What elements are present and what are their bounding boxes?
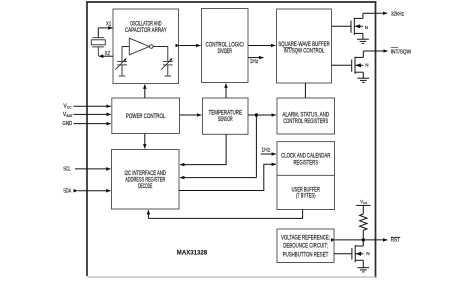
wire: 1Hz output of divider — [248, 57, 263, 59]
svg-text:CC: CC — [67, 105, 72, 109]
svg-text:RST: RST — [391, 238, 401, 244]
wire: SDA bidirectional with I2C interface — [78, 190, 111, 192]
svg-text:CONTROL REGISTERS: CONTROL REGISTERS — [283, 119, 328, 125]
svg-text:CONTROL LOGIC/: CONTROL LOGIC/ — [206, 42, 245, 48]
wire: X1 into oscillator — [98, 27, 112, 29]
svg-text:DEBOUNCE CIRCUIT;: DEBOUNCE CIRCUIT; — [283, 244, 328, 250]
wire: temperature sensor up to control logic — [225, 84, 227, 98]
wire: resistor to RST node — [362, 230, 364, 240]
node: RST net junction — [362, 238, 365, 241]
pin label VBAT — [63, 112, 73, 118]
node: temp sensor output junction — [255, 113, 258, 116]
wire: power control down to I2C interface — [144, 134, 146, 149]
block: alarm, status, and control registers — [277, 98, 335, 134]
block: square-wave buffer INT/SQW control — [277, 9, 332, 83]
svg-text:CAPACITOR ARRAY: CAPACITOR ARRAY — [125, 28, 167, 34]
wire: 1Hz into clock and calendar registers — [261, 153, 276, 155]
wire: square-wave buffer down to alarm registers — [304, 83, 306, 98]
svg-text:N: N — [365, 25, 368, 30]
svg-text:MAX31328: MAX31328 — [177, 250, 208, 257]
ground (Q3 source) — [357, 268, 369, 272]
wire: temp sensor bottom down — [181, 134, 226, 164]
block: I2C interface and address register decode — [112, 150, 180, 210]
svg-text:INT/SQW CONTROL: INT/SQW CONTROL — [284, 48, 325, 54]
svg-text:VOLTAGE REFERENCE;: VOLTAGE REFERENCE; — [281, 235, 330, 241]
svg-text:ADDRESS REGISTER: ADDRESS REGISTER — [125, 178, 166, 184]
variable capacitor C1 (left) — [115, 58, 127, 76]
svg-text:USER BUFFER: USER BUFFER — [292, 187, 321, 193]
wire: junction to I2C interface (middle) — [180, 177, 256, 179]
wire: left cap to inverter input — [122, 47, 129, 62]
svg-text:DECODE: DECODE — [138, 184, 152, 190]
crystal Y1 — [91, 38, 105, 57]
svg-text:(7 BYTES): (7 BYTES) — [296, 194, 316, 200]
svg-text:1Hz: 1Hz — [261, 148, 270, 154]
svg-text:CLOCK AND CALENDAR: CLOCK AND CALENDAR — [281, 154, 331, 160]
block: oscillator and capacitor array — [113, 9, 179, 84]
wire: oscillator to control logic (bidirectional) — [180, 45, 201, 47]
svg-text:PUSHBUTTON RESET: PUSHBUTTON RESET — [283, 252, 329, 258]
block: clock and calendar registers / user buffer — [277, 142, 335, 210]
svg-text:POWER CONTROL: POWER CONTROL — [126, 114, 166, 120]
svg-text:ALARM, STATUS, AND: ALARM, STATUS, AND — [282, 113, 329, 119]
wire: buffer to INT/SQW output MOSFET gate — [332, 64, 352, 66]
wire: VCC into power control — [74, 105, 111, 107]
svg-text:X1: X1 — [106, 21, 111, 27]
svg-text:N: N — [365, 63, 368, 68]
svg-text:CC: CC — [363, 201, 367, 205]
svg-text:BAT: BAT — [66, 114, 72, 118]
resistor R1 (RST pullup) — [360, 214, 367, 230]
block: power control — [112, 98, 180, 134]
svg-text:SCL: SCL — [63, 167, 71, 173]
pin label VCC — [63, 103, 72, 109]
transistor Q2 (INT/SQW open-drain, N-channel) — [352, 51, 364, 78]
svg-text:TEMPERATURE: TEMPERATURE — [209, 111, 243, 117]
wire: VBAT into power control — [74, 113, 111, 115]
wire: control logic to square-wave buffer — [248, 45, 275, 47]
wire: GND into power control — [74, 123, 111, 125]
svg-text:GND: GND — [62, 121, 72, 127]
block: control logic / divider — [202, 9, 249, 83]
wire: X2 out of oscillator (arrow toward crystal) — [99, 55, 113, 57]
wire: I2C interface to clock registers — [179, 164, 270, 190]
svg-text:INT/SQW: INT/SQW — [391, 50, 412, 56]
wire: into I2C interface (upper arrow) — [180, 164, 186, 166]
chip boundary frame (right) — [375, 1, 377, 277]
wire: inverter output to right cap — [153, 47, 168, 62]
wire: junction down — [255, 115, 257, 178]
ground (Q1 source) — [357, 39, 369, 43]
svg-text:OSCILLATOR AND: OSCILLATOR AND — [130, 21, 162, 27]
power VCC (RST pullup supply) — [360, 199, 367, 205]
wire: user buffer bottom loop back to I2C interface — [148, 210, 302, 219]
inverter (oscillator gate) — [129, 38, 153, 55]
svg-text:DIVIDER: DIVIDER — [218, 49, 233, 55]
wire: VCC bar down to resistor — [362, 205, 364, 214]
wire: debounce block to Q3 gate — [334, 253, 352, 255]
svg-text:32kHz: 32kHz — [391, 12, 404, 18]
wire: temperature sensor to alarm registers — [248, 114, 276, 116]
wire: Q1 drain to 32kHz pin — [363, 12, 387, 14]
chip boundary frame (left) — [86, 1, 88, 276]
svg-text:SENSOR: SENSOR — [218, 117, 233, 123]
transistor Q3 (reset pulldown, N-channel) — [352, 240, 363, 268]
wire: X1 lead down to crystal — [97, 28, 99, 38]
wire: RST node to debounce block (arrow left) and RST pin (arrow right) — [335, 239, 387, 241]
wire: power control to temperature sensor — [180, 114, 202, 116]
chip boundary frame (top) — [86, 1, 376, 3]
svg-text:N: N — [366, 251, 369, 256]
wire: Q2 drain to INT/SQW pin — [363, 50, 387, 52]
wire: power control up to oscillator — [144, 85, 146, 98]
svg-text:SQUARE-WAVE BUFFER: SQUARE-WAVE BUFFER — [278, 42, 330, 48]
wire: buffer to 32kHz output MOSFET gate — [332, 25, 352, 27]
transistor Q1 (32kHz open-drain, N-channel) — [351, 13, 363, 39]
svg-text:SDA: SDA — [63, 189, 72, 195]
block: voltage reference; debounce circuit; pushbutton reset — [277, 229, 334, 263]
ground (Q2 source) — [357, 78, 369, 82]
svg-text:1Hz: 1Hz — [250, 59, 259, 65]
block: temperature sensor — [203, 98, 249, 134]
wire: SCL into I2C interface — [75, 168, 110, 170]
svg-text:I2C INTERFACE AND: I2C INTERFACE AND — [125, 171, 167, 177]
chip boundary frame (bottom, light gray) — [87, 276, 376, 278]
svg-text:REGISTERS: REGISTERS — [293, 160, 318, 166]
variable capacitor C2 (right) — [161, 58, 173, 76]
